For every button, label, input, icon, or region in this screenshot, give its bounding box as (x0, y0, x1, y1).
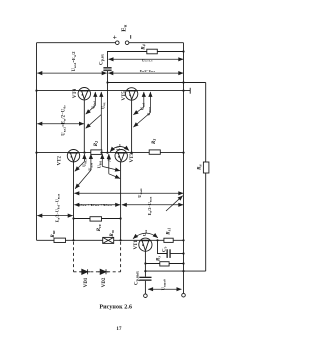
wire left border (36, 43, 38, 241)
T-bar end of rail1 (189, 88, 191, 94)
wire dashed left (73, 242, 75, 272)
svg-text:Rсв: Rсв (97, 224, 102, 231)
dimension lines (37, 59, 183, 289)
wire dashed bottom (74, 271, 121, 273)
dim L2b Eп/2 (108, 72, 183, 74)
svg-text:Eп/2−Uбэ1−Uвых: Eп/2−Uбэ1−Uвых (55, 193, 61, 222)
dim L2a Uкэ4 (37, 72, 106, 74)
arrow Uбэ4 elbow (94, 92, 96, 106)
svg-text:Uбэ4: Uбэ4 (91, 101, 97, 109)
wire VT2 emitter down (73, 162, 75, 241)
svg-text:A: A (107, 158, 112, 162)
arc annotation over VT3 (110, 146, 129, 151)
wire right vertical main (183, 43, 185, 294)
svg-text:Cэ: Cэ (163, 246, 168, 252)
resistor Rэ1 (164, 238, 173, 242)
diode VD2 (98, 271, 108, 273)
svg-text:R2: R2 (94, 141, 99, 146)
transistor VT3 (115, 150, 127, 241)
wire VT3 emitter down (120, 161, 122, 240)
capacitor Cр.вых plates (139, 277, 151, 281)
transistor VT5 (125, 88, 137, 153)
svg-text:Cр.вых: Cр.вых (135, 271, 140, 285)
wire Rсв (74, 218, 121, 220)
svg-text:R3: R3 (152, 139, 157, 144)
svg-text:VT4: VT4 (73, 88, 78, 98)
svg-text:Rэ: Rэ (157, 256, 162, 261)
wire VT1 emitter down (144, 251, 146, 277)
dim L5b (122, 204, 184, 206)
wire rail1 base row1 (37, 90, 191, 92)
wire far right vertical (205, 83, 207, 272)
resistor Rсв (90, 217, 102, 221)
svg-text:Uкэ1: Uкэ1 (140, 102, 146, 110)
diag branch from x100.8 (86, 115, 102, 129)
wire Cэ branch (158, 240, 167, 253)
arrow below rail2 a elbow (83, 154, 85, 162)
dim L6 (37, 215, 72, 217)
svg-text:VT1: VT1 (134, 240, 139, 250)
svg-text:VD2: VD2 (102, 277, 107, 287)
dim L7 Uвых0 (148, 288, 181, 290)
transistor VT2 (67, 150, 79, 241)
resistor R2 (91, 150, 102, 155)
diode VD1 (80, 271, 90, 273)
node output terminal right (182, 293, 186, 297)
svg-text:Eп/2−Uост: Eп/2−Uост (140, 69, 156, 73)
resistor R4 (147, 49, 158, 54)
dim L3 Uкэ2 (37, 123, 84, 125)
arrow below rail2 d elbow (108, 154, 110, 174)
dim L5a (74, 204, 120, 206)
wire VT5 down (131, 99, 133, 152)
resistor Rн (203, 162, 209, 173)
svg-text:Cр.вх: Cр.вх (100, 54, 105, 65)
svg-text:Rко: Rко (51, 230, 56, 237)
svg-text:Rэ1: Rэ1 (167, 228, 172, 235)
svg-text:Uкэ2=Eп/2−Uбэ: Uкэ2=Eп/2−Uбэ (62, 105, 67, 136)
svg-text:Uвых: Uвых (137, 188, 143, 198)
transistor VT4 (78, 88, 90, 153)
svg-text:Eп: Eп (120, 24, 127, 32)
node + terminal of Eп (116, 41, 120, 45)
svg-text:Uкэ4=Eп/2: Uкэ4=Eп/2 (71, 51, 77, 71)
resistor R3 (149, 150, 160, 154)
capacitor Cэ plates (167, 249, 171, 258)
svg-text:Eп/2−Uвых: Eп/2−Uвых (147, 196, 153, 215)
svg-text:Uкэ0: Uкэ0 (88, 162, 94, 170)
svg-text:VT5: VT5 (122, 91, 127, 101)
power labels (113, 24, 131, 41)
annotation elbow arrows (75, 92, 183, 211)
wire Rэ branch (145, 263, 183, 265)
wire cap to rail2 (107, 70, 109, 152)
svg-text:R4: R4 (142, 44, 147, 49)
svg-text:VT2: VT2 (58, 156, 63, 166)
transistor VT1 (139, 238, 152, 277)
wire bottom rail3 (37, 239, 184, 241)
svg-text:17: 17 (116, 327, 122, 332)
svg-text:VT3: VT3 (130, 153, 135, 163)
lower network wires (54, 150, 209, 298)
svg-text:Uвд: Uвд (100, 102, 106, 109)
arrow below rail2 b elbow (90, 154, 92, 170)
arrow long x100.8 to rail2 (100, 92, 102, 153)
resistor Rэ (160, 262, 169, 266)
svg-text:VD1: VD1 (84, 277, 89, 287)
wire VT4 down (83, 99, 85, 152)
svg-text:Rт: Rт (110, 230, 115, 236)
arrow Uбэ5 elbow (143, 92, 145, 107)
resistor Rт crossed (103, 237, 114, 243)
svg-text:Rн: Rн (197, 164, 202, 170)
dim L4 Uвых (74, 192, 183, 194)
svg-text:Uб1+Uб2+Uб3: Uб1+Uб2+Uб3 (78, 203, 113, 207)
wire rail2 base row2 (37, 152, 184, 154)
wire to output terminal left (144, 281, 146, 294)
arrow Uвых elbow (149, 92, 151, 113)
wire R4 branch (108, 52, 147, 68)
wire top rail right (129, 42, 184, 44)
svg-text:Uост1,3: Uост1,3 (142, 58, 153, 62)
wire bottom output rail (145, 270, 205, 272)
wire rail y82 (108, 82, 206, 84)
svg-text:Uвх: Uвх (116, 143, 122, 150)
diag dI (166, 196, 183, 211)
svg-text:Uвых0: Uвых0 (161, 279, 167, 290)
svg-text:Uвых: Uвых (146, 107, 152, 116)
rotated component labels (51, 44, 203, 290)
label minus (130, 35, 132, 39)
arc annotation over VT1 (133, 233, 158, 239)
capacitor Cр.вх plates (103, 67, 111, 71)
node - terminal of Eп (125, 41, 129, 45)
svg-text:Uвх: Uвх (142, 229, 148, 236)
arrow below rail2 c elbow (101, 154, 103, 166)
svg-text:+: + (113, 33, 117, 42)
wire top rail left (37, 42, 116, 44)
svg-text:Uб01: Uб01 (97, 160, 103, 168)
resistor Rко (54, 238, 66, 242)
dim L1 UR4 (109, 58, 184, 60)
tiny annotation labels (78, 58, 156, 236)
svg-text:Uбэ2: Uбэ2 (82, 159, 88, 167)
wire dashed right (120, 242, 122, 272)
svg-text:Рисунок 2.6: Рисунок 2.6 (99, 305, 132, 311)
node output terminal left (144, 294, 148, 298)
dashed diode branch (74, 242, 121, 272)
